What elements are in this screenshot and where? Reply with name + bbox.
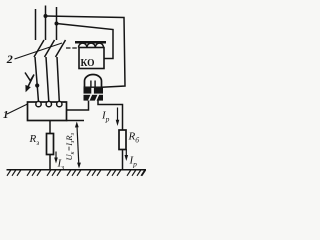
wire case to armature left leg [67,101,89,111]
breaker QF contact slash phase A [34,40,44,57]
armature dome of KO [85,75,102,87]
wire phase A lower [35,57,39,102]
svg-text:Iр: Iр [129,155,138,169]
voltage double arrow Uk [75,122,81,169]
plunger stem strokes [91,81,95,88]
svg-text:Uк=IзRз: Uк=IзRз [64,132,76,160]
svg-text:2: 2 [6,52,13,66]
svg-text:1: 1 [3,109,9,121]
breaker QF contact slash phase B [45,40,55,57]
wire phase C lower [57,57,59,102]
armature base line [84,86,104,88]
current arrow Ip upper [116,108,120,127]
wire inner loop: tap C to KO box right terminal [57,24,114,59]
node tap B [44,14,48,18]
wire phase A upper vertical [35,9,37,40]
coil bumps of KO [79,43,104,47]
node fault point on phase A [35,83,39,87]
resistor Rz [47,134,54,155]
terminal bushing B [46,101,51,106]
breaker QF contact slash phase C [56,40,66,57]
armature block row 1 right [94,88,103,94]
wire case down to Rz [49,121,51,134]
svg-text:Rз: Rз [29,133,40,147]
terminal bushing C [57,101,62,106]
case bottom extension line [67,120,85,122]
armature block row 1 left [84,88,92,94]
resistor Rb [119,130,126,150]
machine frame box 1 [28,102,67,121]
wire phase B upper vertical [45,6,47,41]
leader line label 1 [7,104,28,114]
svg-text:Rб: Rб [128,131,140,145]
current arrow Iz [54,152,58,164]
transformer core bar of KO [75,41,106,44]
fault lightning arrow to case [25,73,34,93]
armature hatched row 2 [84,94,104,101]
wire phase C upper vertical [56,7,58,40]
terminal bushing A [36,101,41,106]
KO coil box [79,48,104,69]
leader line label 2 [15,43,63,59]
node tap C [55,22,59,26]
wire phase B lower [46,57,49,102]
mechanical link dashed line breaker to KO [66,47,77,49]
svg-text:КО: КО [81,57,95,69]
ground line [7,169,147,171]
wire outer loop: tap B to right side down to armature [46,16,126,87]
svg-text:Iр: Iр [101,110,110,124]
wire armature to auxiliary earth Rb [98,101,123,131]
wire Rb to ground [122,150,124,170]
wire Rz to ground [49,155,51,170]
current arrow Ip lower [125,149,129,161]
ground hatching [7,170,146,176]
